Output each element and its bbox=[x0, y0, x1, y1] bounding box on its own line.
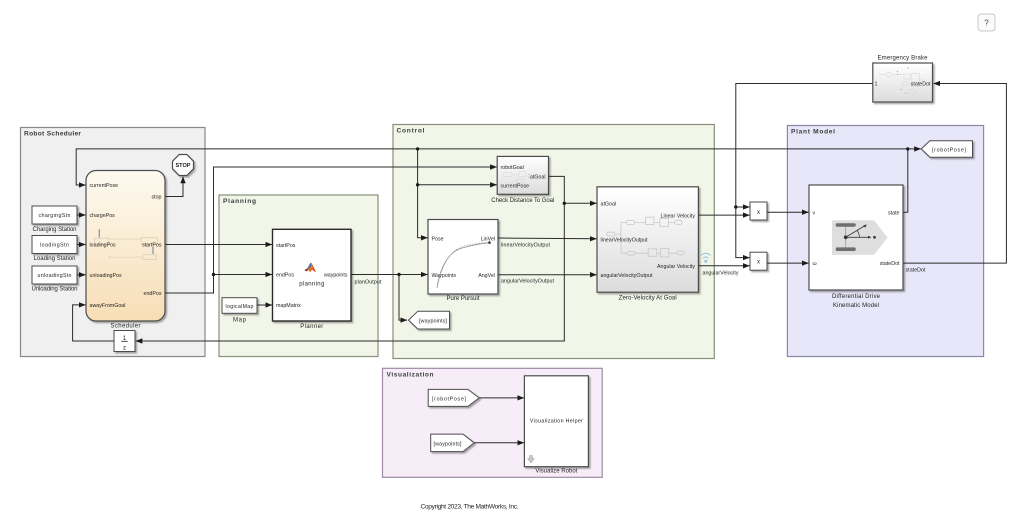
svg-text:stateDot: stateDot bbox=[911, 82, 931, 88]
svg-text:Plant Model: Plant Model bbox=[791, 129, 835, 136]
svg-text:Map: Map bbox=[233, 317, 247, 323]
svg-text:LinVel: LinVel bbox=[481, 236, 495, 242]
svg-text:Copyright 2023, The MathWorks,: Copyright 2023, The MathWorks, Inc. bbox=[421, 504, 519, 511]
svg-text:linearVelocityOutput: linearVelocityOutput bbox=[501, 243, 551, 249]
svg-text:x: x bbox=[757, 260, 760, 266]
svg-text:v: v bbox=[813, 210, 816, 216]
svg-text:atGoal: atGoal bbox=[530, 175, 546, 181]
svg-text:Angular Velocity: Angular Velocity bbox=[657, 264, 695, 270]
svg-text:Differential Drive: Differential Drive bbox=[832, 294, 881, 300]
svg-text:loadingPos: loadingPos bbox=[90, 243, 117, 249]
svg-text:[robotPose]: [robotPose] bbox=[432, 396, 467, 402]
svg-text:endPos: endPos bbox=[144, 291, 162, 297]
svg-text:Zero-Velocity At Goal: Zero-Velocity At Goal bbox=[619, 296, 677, 302]
svg-text:Unloading Station: Unloading Station bbox=[32, 287, 78, 293]
svg-text:angularVelocity: angularVelocity bbox=[703, 270, 739, 276]
svg-text:loadingStn: loadingStn bbox=[40, 243, 69, 249]
svg-text:stop: stop bbox=[151, 195, 161, 201]
svg-text:currentPose: currentPose bbox=[90, 183, 119, 189]
svg-text:chargePos: chargePos bbox=[90, 213, 116, 219]
svg-text:logicalMap: logicalMap bbox=[226, 304, 254, 310]
svg-text:stateDot: stateDot bbox=[906, 268, 927, 274]
svg-text:robotGoal: robotGoal bbox=[501, 165, 524, 171]
svg-text:[waypoints]: [waypoints] bbox=[434, 441, 463, 447]
svg-text:1: 1 bbox=[875, 82, 878, 88]
svg-text:planOutput: planOutput bbox=[355, 280, 383, 286]
svg-text:Check Distance To Goal: Check Distance To Goal bbox=[491, 198, 554, 204]
svg-text:Loading Station: Loading Station bbox=[34, 256, 76, 262]
svg-text:Visualization Helper: Visualization Helper bbox=[530, 419, 583, 425]
svg-text:x: x bbox=[757, 210, 760, 216]
svg-text:Planner: Planner bbox=[300, 324, 323, 330]
svg-text:Visualization: Visualization bbox=[387, 372, 434, 379]
svg-text:Control: Control bbox=[397, 128, 425, 135]
svg-text:AngVel: AngVel bbox=[478, 273, 495, 279]
svg-text:Robot Scheduler: Robot Scheduler bbox=[24, 131, 81, 138]
svg-text:Scheduler: Scheduler bbox=[111, 324, 141, 330]
svg-text:waypoints: waypoints bbox=[324, 273, 348, 279]
svg-text:planning: planning bbox=[299, 282, 324, 288]
svg-text:state: state bbox=[888, 210, 900, 216]
svg-text:angularVelocityOutput: angularVelocityOutput bbox=[601, 273, 653, 279]
svg-text:Pose: Pose bbox=[432, 236, 444, 242]
svg-text:ω: ω bbox=[813, 261, 817, 267]
svg-text:Charging Station: Charging Station bbox=[33, 227, 77, 233]
svg-text:endPos: endPos bbox=[276, 273, 294, 279]
svg-text:STOP: STOP bbox=[176, 163, 191, 169]
svg-text:Kinematic Model: Kinematic Model bbox=[833, 303, 879, 309]
svg-text:atGoal: atGoal bbox=[601, 202, 617, 208]
svg-text:angularVelocityOutput: angularVelocityOutput bbox=[501, 279, 555, 285]
svg-text:stateDot: stateDot bbox=[880, 261, 900, 267]
svg-text:[robotPose]: [robotPose] bbox=[932, 147, 967, 153]
svg-text:Linear Velocity: Linear Velocity bbox=[661, 213, 696, 219]
svg-text:unloadingStn: unloadingStn bbox=[38, 273, 72, 279]
svg-text:linearVelocityOutput: linearVelocityOutput bbox=[601, 238, 649, 244]
svg-text:z: z bbox=[123, 345, 126, 351]
svg-text:unloadingPos: unloadingPos bbox=[90, 273, 122, 279]
svg-text:startPos: startPos bbox=[276, 243, 296, 249]
svg-text:awayFromGoal: awayFromGoal bbox=[90, 303, 126, 309]
svg-text:Pure Pursuit: Pure Pursuit bbox=[447, 296, 480, 302]
svg-text:?: ? bbox=[984, 19, 989, 28]
svg-text:Visualize Robot: Visualize Robot bbox=[535, 469, 577, 475]
svg-text:mapMatrix: mapMatrix bbox=[276, 303, 301, 309]
svg-text:Emergency Brake: Emergency Brake bbox=[878, 56, 929, 62]
svg-text:Waypoints: Waypoints bbox=[432, 273, 457, 279]
svg-text:startPos: startPos bbox=[142, 243, 162, 249]
svg-text:currentPose: currentPose bbox=[501, 183, 530, 189]
svg-text:Planning: Planning bbox=[223, 198, 256, 205]
svg-text:chargingStn: chargingStn bbox=[39, 213, 71, 219]
svg-text:[waypoints]: [waypoints] bbox=[419, 319, 448, 325]
